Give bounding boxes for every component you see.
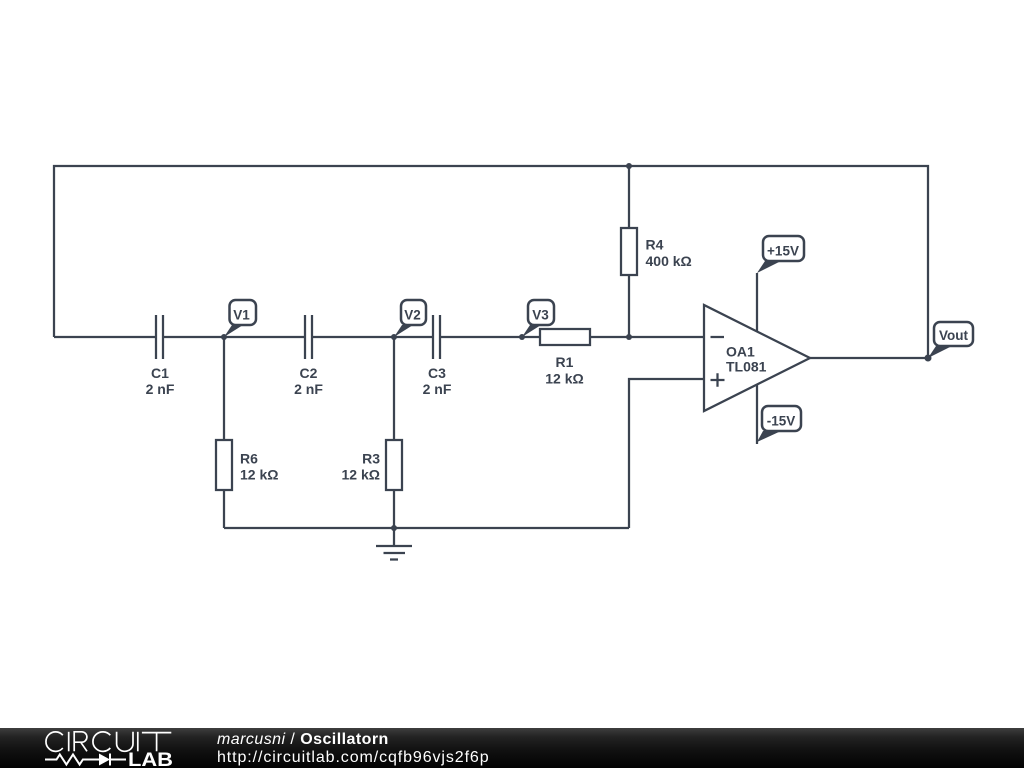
svg-text:C3: C3	[428, 365, 446, 381]
svg-text:Vout: Vout	[939, 328, 968, 343]
svg-text:12 kΩ: 12 kΩ	[342, 467, 380, 483]
svg-text:2 nF: 2 nF	[146, 381, 175, 397]
svg-text:C2: C2	[300, 365, 318, 381]
svg-text:12 kΩ: 12 kΩ	[240, 467, 278, 483]
svg-text:2 nF: 2 nF	[423, 381, 452, 397]
svg-text:+15V: +15V	[767, 244, 799, 259]
svg-text:R4: R4	[646, 237, 664, 253]
svg-text:TL081: TL081	[726, 359, 767, 375]
svg-text:12 kΩ: 12 kΩ	[545, 371, 583, 387]
svg-text:2 nF: 2 nF	[294, 381, 323, 397]
svg-text:V2: V2	[404, 308, 421, 323]
svg-text:R3: R3	[362, 451, 380, 467]
svg-text:C1: C1	[151, 365, 169, 381]
svg-text:400 kΩ: 400 kΩ	[646, 253, 692, 269]
svg-text:R6: R6	[240, 451, 258, 467]
svg-text:OA1: OA1	[726, 344, 755, 360]
svg-text:-15V: -15V	[767, 414, 796, 429]
svg-text:R1: R1	[556, 354, 574, 370]
svg-text:LAB: LAB	[128, 750, 173, 768]
svg-text:V1: V1	[233, 308, 250, 323]
svg-text:V3: V3	[532, 308, 549, 323]
